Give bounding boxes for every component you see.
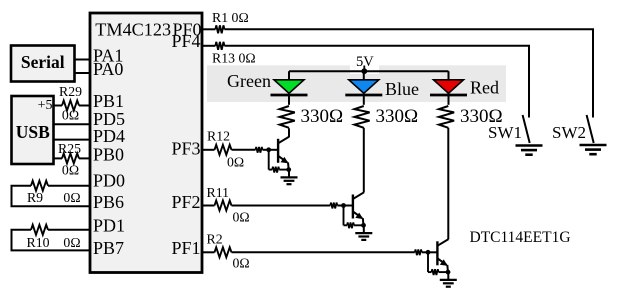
resistor R25 bbox=[54, 157, 63, 159]
transistor Q2 blue DTC114 bbox=[330, 192, 372, 240]
node 5V junction bbox=[361, 68, 367, 74]
svg-text:Serial: Serial bbox=[21, 52, 65, 72]
svg-text:330Ω: 330Ω bbox=[301, 106, 344, 127]
resistor R2 on PF1 wire bbox=[202, 251, 215, 253]
switch SW1 bbox=[523, 115, 530, 143]
svg-text:5V: 5V bbox=[356, 54, 374, 70]
resistor R1 on PF0 wire bbox=[202, 28, 215, 30]
LED blue D2 bbox=[363, 71, 365, 80]
wire USB to PD4 bbox=[54, 139, 91, 141]
svg-text:330Ω: 330Ω bbox=[460, 106, 503, 127]
resistor R13 on PF4 wire bbox=[202, 45, 215, 47]
svg-text:R10: R10 bbox=[27, 235, 50, 250]
svg-text:DTC114EET1G: DTC114EET1G bbox=[470, 229, 571, 246]
svg-text:0Ω: 0Ω bbox=[63, 235, 80, 250]
svg-text:R1 0Ω: R1 0Ω bbox=[212, 10, 249, 25]
USB connector box bbox=[12, 96, 54, 164]
svg-text:+5: +5 bbox=[38, 98, 53, 113]
svg-text:Red: Red bbox=[470, 78, 499, 98]
resistor R11 on PF2 wire bbox=[202, 205, 215, 207]
ground SW1 bbox=[516, 146, 543, 155]
svg-text:0Ω: 0Ω bbox=[233, 256, 250, 271]
transistor Q1 green DTC114 bbox=[256, 137, 298, 185]
wire Serial to PA1 bbox=[75, 59, 91, 61]
svg-text:SW2: SW2 bbox=[552, 123, 586, 142]
resistor 330 blue bbox=[354, 106, 369, 128]
svg-text:PF3: PF3 bbox=[171, 138, 200, 158]
microcontroller U1 TM4C123 bbox=[90, 13, 202, 273]
svg-text:0Ω: 0Ω bbox=[63, 190, 80, 205]
svg-text:PB7: PB7 bbox=[93, 238, 124, 258]
svg-text:R2: R2 bbox=[207, 232, 223, 247]
switch SW2 bbox=[587, 115, 594, 143]
wire to green transistor collector bbox=[288, 128, 290, 137]
svg-text:PF1: PF1 bbox=[171, 238, 200, 258]
svg-text:R29: R29 bbox=[59, 84, 82, 99]
resistor 330 red bbox=[439, 106, 454, 128]
5V knockout bbox=[350, 52, 379, 74]
svg-text:PB0: PB0 bbox=[93, 145, 124, 165]
gray LED band bbox=[207, 65, 506, 102]
svg-text:Green: Green bbox=[227, 71, 271, 91]
resistor R12 on PF3 wire bbox=[202, 149, 215, 151]
svg-text:0Ω: 0Ω bbox=[62, 108, 79, 123]
wire to blue transistor collector bbox=[363, 128, 365, 193]
svg-text:TM4C123: TM4C123 bbox=[95, 19, 171, 39]
wire PF4 to SW1 bbox=[224, 46, 529, 118]
LED green D1 bbox=[288, 71, 290, 80]
svg-text:PB6: PB6 bbox=[93, 192, 124, 212]
5V rail wire bbox=[289, 70, 449, 72]
wire Serial to PA0 bbox=[75, 72, 91, 74]
wire to red transistor collector bbox=[447, 128, 449, 239]
svg-text:0Ω: 0Ω bbox=[227, 155, 244, 170]
resistor R10 loop PD1-PB7 bbox=[48, 229, 90, 231]
svg-text:PF4: PF4 bbox=[171, 31, 200, 51]
svg-text:0Ω: 0Ω bbox=[62, 163, 79, 178]
resistor 330 green bbox=[280, 106, 295, 128]
svg-text:0Ω: 0Ω bbox=[233, 210, 250, 225]
svg-text:PB1: PB1 bbox=[93, 91, 124, 111]
svg-text:R13 0Ω: R13 0Ω bbox=[212, 51, 256, 66]
svg-text:PF2: PF2 bbox=[171, 192, 200, 212]
svg-text:PD4: PD4 bbox=[93, 126, 125, 146]
svg-text:PD0: PD0 bbox=[93, 171, 125, 191]
svg-text:R12: R12 bbox=[207, 129, 230, 144]
svg-text:R25: R25 bbox=[58, 141, 81, 156]
Serial connector box bbox=[11, 46, 75, 82]
svg-text:330Ω: 330Ω bbox=[376, 106, 419, 127]
svg-text:R11: R11 bbox=[207, 185, 230, 200]
svg-text:PD1: PD1 bbox=[93, 215, 125, 235]
svg-text:R9: R9 bbox=[27, 190, 43, 205]
svg-text:Blue: Blue bbox=[385, 79, 419, 99]
svg-text:PA0: PA0 bbox=[93, 59, 123, 79]
svg-text:USB: USB bbox=[16, 122, 50, 142]
ground SW2 bbox=[580, 145, 607, 154]
wire PF0 to SW2 bbox=[224, 29, 593, 117]
transistor Q3 red DTC114 bbox=[415, 239, 457, 287]
wire USB to PD5 bbox=[54, 123, 91, 125]
resistor R9 loop PD0-PB6 bbox=[48, 185, 90, 187]
LED red D3 bbox=[448, 71, 450, 80]
resistor R29 bbox=[54, 105, 63, 107]
5V stub bbox=[363, 66, 365, 72]
